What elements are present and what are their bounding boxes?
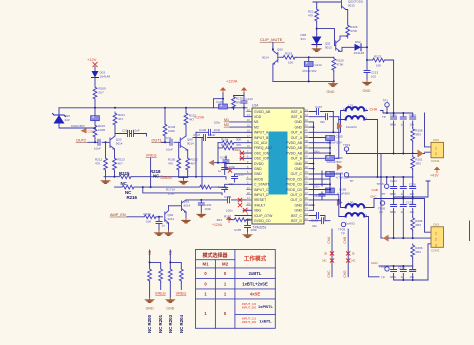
rail C CHC	[374, 198, 413, 200]
capacitor C153	[232, 177, 238, 179]
OUT_B wire to L21 row2	[310, 120, 346, 159]
capacitor C149	[223, 160, 229, 162]
svg-text:3R3: 3R3	[415, 250, 421, 254]
svg-text:/FAULT: /FAULT	[254, 203, 265, 207]
wire flag1 to C140	[214, 93, 224, 108]
wire OUT_D second	[310, 199, 339, 201]
svg-text:9014: 9014	[187, 142, 194, 146]
resistor R211 4K7	[113, 112, 117, 126]
svg-text:PVDD_CD: PVDD_CD	[286, 177, 303, 181]
speaker-arrow marker left CN3	[383, 235, 389, 242]
transistor Q51 9013	[336, 34, 348, 51]
svg-text:GND: GND	[254, 172, 262, 176]
test point TP1	[385, 103, 389, 107]
capacitor C168 BST_B	[310, 116, 339, 118]
svg-text:33n: 33n	[320, 120, 325, 124]
zobel caps row C	[394, 199, 413, 239]
svg-text:D52: D52	[355, 40, 361, 44]
mode-select table frame	[196, 250, 276, 329]
svg-text:CN2: CN2	[433, 138, 439, 142]
svg-text:C143: C143	[246, 97, 254, 101]
wire AMP_EN row	[127, 216, 163, 218]
svg-text:C153: C153	[237, 173, 245, 177]
svg-text:CON3: CON3	[431, 249, 440, 253]
svg-text:9015: 9015	[348, 4, 355, 8]
svg-text:C209: C209	[88, 130, 95, 134]
svg-text:1: 1	[435, 146, 437, 150]
resistor R220 470K	[332, 57, 336, 71]
svg-text:TP: TP	[350, 179, 354, 183]
svg-text:INPUT_D/0: INPUT_D/0	[242, 306, 257, 310]
resistor R223 10K	[367, 59, 372, 61]
BST_C cap	[310, 216, 326, 222]
svg-text:1xPBTL: 1xPBTL	[258, 304, 273, 309]
wire R200 to gnd	[149, 282, 151, 298]
svg-text:1u: 1u	[401, 192, 405, 196]
VBG wire	[243, 209, 252, 211]
right vertical rail	[366, 0, 368, 71]
top rail wire	[313, 1, 342, 3]
resistor R201	[159, 268, 163, 282]
svg-text:GVDD_AB: GVDD_AB	[254, 110, 271, 114]
svg-text:2200uF/50V: 2200uF/50V	[327, 141, 342, 145]
svg-text:VDD: VDD	[254, 115, 262, 119]
svg-text:10n: 10n	[410, 275, 415, 279]
resistor R266 3R3	[411, 244, 415, 258]
svg-text:Q50: Q50	[277, 48, 283, 52]
resistor R155 FREQ_ADJ	[218, 147, 252, 149]
svg-text:2: 2	[435, 237, 437, 241]
vertical rail b	[338, 117, 340, 159]
wire Q60 collector to bus via R151	[185, 108, 187, 112]
svg-text:TP19: TP19	[343, 143, 351, 147]
svg-text:C167: C167	[315, 105, 323, 109]
svg-text:OUT_A: OUT_A	[291, 131, 303, 135]
svg-text:1u: 1u	[218, 185, 222, 189]
ground under R212	[105, 177, 107, 179]
resistor R208 3R3	[411, 128, 415, 142]
rail B CHB	[378, 176, 413, 178]
speaker-arrow marker b	[337, 164, 343, 171]
wire row R216	[115, 187, 227, 189]
svg-text:C204: C204	[390, 179, 397, 183]
wire R223 to cap column	[386, 60, 394, 113]
svg-text:R223: R223	[374, 54, 382, 58]
svg-text:NC R201: NC R201	[158, 314, 163, 333]
resistor R215 (NC)	[118, 175, 132, 179]
svg-text:120K: 120K	[168, 192, 175, 196]
capacitor C155 100n	[247, 220, 249, 233]
svg-text:CHC: CHC	[327, 270, 331, 278]
resistor R203	[168, 268, 172, 282]
wire R204 to VREG	[180, 282, 182, 290]
resistor R154 OC_ADJ	[218, 142, 252, 144]
svg-text:FREQ_ADJ: FREQ_ADJ	[254, 146, 272, 150]
transistor Q50 9014	[273, 51, 282, 65]
svg-text:4xSE: 4xSE	[250, 292, 260, 297]
svg-text:M1: M1	[224, 118, 229, 122]
test point TP30	[385, 267, 389, 271]
svg-text:47K: 47K	[168, 162, 173, 166]
svg-text:TP1: TP1	[383, 99, 389, 103]
resistor R157 3R3	[229, 219, 252, 221]
svg-text:CHB: CHB	[372, 188, 378, 192]
svg-text:R199: R199	[144, 212, 152, 216]
svg-text:1n: 1n	[162, 224, 166, 228]
svg-text:1N4148: 1N4148	[100, 75, 111, 79]
svg-text:PVDD_AB: PVDD_AB	[286, 146, 303, 150]
zener DZ8 9V1	[316, 34, 318, 36]
svg-text:1: 1	[435, 231, 437, 235]
svg-text:TP: TP	[382, 192, 386, 196]
wire jumper CHA-CHC	[331, 229, 333, 277]
svg-text:3: 3	[435, 243, 437, 247]
wire Q20 emitter down	[114, 149, 116, 157]
test point TP15	[385, 184, 389, 188]
svg-text:47K: 47K	[308, 14, 313, 18]
resistor R265 3R3	[411, 217, 415, 231]
transistor Q61 9014	[182, 200, 187, 212]
svg-text:OC_ADJ: OC_ADJ	[254, 141, 268, 145]
svg-text:VREG: VREG	[176, 291, 187, 295]
wire R209 to bus	[94, 100, 96, 108]
svg-text:1xBTL+2xSE: 1xBTL+2xSE	[242, 281, 268, 286]
svg-text:VREG: VREG	[155, 291, 166, 295]
svg-text:C155: C155	[234, 228, 242, 232]
svg-text:2xBTL: 2xBTL	[249, 271, 262, 276]
ground under C154	[154, 231, 163, 237]
svg-text:/CLIP_OTW: /CLIP_OTW	[254, 214, 273, 218]
svg-text:GND: GND	[146, 307, 154, 311]
svg-text:100R: 100R	[98, 128, 106, 132]
wire OUT2 row	[88, 141, 110, 143]
svg-text:BST_A: BST_A	[291, 110, 302, 114]
resistor R150 47K	[178, 142, 180, 157]
svg-text:1u: 1u	[401, 123, 405, 127]
svg-text:M2: M2	[222, 262, 229, 267]
resistor R213 4K7	[113, 157, 117, 171]
svg-text:OSC_IOM: OSC_IOM	[254, 151, 270, 155]
svg-text:100n: 100n	[314, 150, 320, 154]
vertical rail a	[332, 112, 334, 133]
svg-text:10uF: 10uF	[94, 147, 101, 151]
svg-text:C147: C147	[193, 133, 201, 137]
svg-text:C212: C212	[315, 63, 323, 67]
capacitor C154	[158, 217, 160, 231]
svg-text:INPUT_D/0: INPUT_D/0	[242, 320, 257, 324]
transistor Q62 9014	[165, 206, 169, 223]
svg-text:R215: R215	[119, 171, 130, 176]
right edge stub	[469, 221, 471, 241]
svg-text:TPA3251: TPA3251	[253, 226, 267, 230]
flag 1	[220, 87, 226, 93]
right GND rail	[310, 122, 314, 210]
net CHA after L21	[364, 111, 412, 114]
svg-text:30K: 30K	[236, 138, 241, 142]
svg-text:BST_D: BST_D	[291, 219, 302, 223]
flag 2	[241, 87, 247, 93]
wire Q61 emitter to gnd	[185, 212, 187, 218]
ground GND under bus	[328, 81, 337, 87]
CLIP_OTW wire	[235, 215, 252, 217]
transistor Q20 9014	[110, 136, 115, 149]
svg-text:DVDD: DVDD	[254, 162, 264, 166]
electrolytic C209 100uF/50V	[94, 108, 96, 116]
svg-text:1u: 1u	[401, 210, 405, 214]
svg-text:OUT_A: OUT_A	[291, 136, 303, 140]
resistor R209 2K7	[93, 86, 97, 100]
svg-text:680n: 680n	[390, 192, 397, 196]
wire Q51 to D52	[340, 47, 354, 51]
wire +12V to D03	[94, 67, 96, 72]
small caps 100n column	[321, 192, 323, 199]
diode D03 1N4148	[92, 71, 99, 78]
svg-text:100n: 100n	[214, 121, 221, 125]
svg-text:1N4148: 1N4148	[354, 51, 365, 55]
svg-text:GND: GND	[294, 162, 302, 166]
svg-text:CHC: CHC	[370, 195, 377, 199]
svg-text:GND: GND	[166, 307, 174, 311]
svg-text:10n: 10n	[410, 123, 415, 127]
electrolytic C140	[219, 104, 228, 109]
svg-text:BST_B: BST_B	[291, 115, 302, 119]
svg-text:R216: R216	[127, 195, 138, 200]
svg-text:R157: R157	[224, 215, 232, 219]
svg-text:M1: M1	[254, 120, 259, 124]
resistor R216 (NC)	[121, 185, 135, 189]
zobel caps row D	[394, 266, 413, 280]
resistor R210	[93, 124, 97, 138]
IC pin names right	[286, 110, 303, 223]
svg-text:10n: 10n	[410, 210, 415, 214]
svg-text:47K: 47K	[95, 162, 100, 166]
speaker-arrow into CN2	[418, 150, 424, 158]
wire jumper CHB-CHD	[347, 229, 349, 277]
svg-text:3R3: 3R3	[415, 133, 421, 137]
power +41V	[434, 167, 440, 173]
svg-text:1u: 1u	[401, 275, 405, 279]
svg-text:9013: 9013	[325, 46, 332, 50]
resistor R221 47K	[316, 2, 318, 8]
svg-text:10uHX2: 10uHX2	[346, 125, 357, 129]
svg-text:+12VA: +12VA	[194, 116, 205, 120]
wire DZ8 node to Q51 base	[317, 29, 336, 46]
OUT_D wire to L20 row2	[310, 195, 346, 217]
electrolytic C212 470uF/16V	[308, 57, 310, 61]
svg-text:TP30: TP30	[379, 265, 387, 269]
svg-text:U34: U34	[252, 104, 258, 108]
electrolytic C165 2200uF/50V	[326, 136, 335, 141]
svg-text:3R3: 3R3	[415, 223, 421, 227]
svg-text:10n: 10n	[410, 192, 415, 196]
svg-text:GND: GND	[294, 209, 302, 213]
capacitor C147 input B	[193, 137, 252, 139]
L20 row1 out to CHC rail	[364, 199, 374, 208]
zener D26 24V branch	[59, 108, 95, 128]
svg-text:3R3: 3R3	[415, 162, 421, 166]
bottom rail B to +41V	[394, 181, 430, 197]
svg-text:CHA: CHA	[327, 236, 331, 244]
transistor Q52 9015	[342, 0, 346, 10]
svg-text:INPUT_A: INPUT_A	[254, 131, 269, 135]
svg-text:CHD: CHD	[371, 261, 378, 265]
svg-text:1u: 1u	[218, 169, 222, 173]
svg-text:CLIP_MUTE: CLIP_MUTE	[260, 37, 283, 42]
svg-text:C149: C149	[220, 156, 228, 160]
svg-text:GND: GND	[294, 203, 302, 207]
svg-text:工作模式: 工作模式	[244, 254, 267, 262]
svg-text:9014: 9014	[116, 142, 123, 146]
wire M1 drop	[150, 250, 161, 268]
DVDD/GND/AVDD wires	[225, 164, 252, 183]
svg-text:CHB: CHB	[343, 237, 347, 244]
svg-text:4K7: 4K7	[118, 117, 124, 121]
svg-text:2K7: 2K7	[99, 91, 105, 95]
svg-text:GND: GND	[294, 125, 302, 129]
resistor R161 3R3	[411, 156, 415, 170]
svg-text:AMP_EN: AMP_EN	[110, 213, 126, 217]
main top bus wire	[59, 107, 247, 109]
wire CLIP_MUTE drop	[272, 43, 274, 51]
svg-text:C173: C173	[409, 269, 416, 273]
svg-text:100uF/50V: 100uF/50V	[71, 124, 85, 128]
svg-text:10uF: 10uF	[209, 133, 216, 137]
input drop wires	[195, 132, 197, 176]
wire R201 to VREG	[160, 282, 162, 290]
svg-text:2: 2	[435, 152, 437, 156]
svg-text:100n: 100n	[205, 207, 212, 211]
capacitor C213 102	[364, 71, 370, 73]
OUT_C wires to L20	[310, 174, 346, 208]
svg-text:GND: GND	[363, 89, 371, 93]
svg-text:GND: GND	[327, 90, 335, 94]
resistor R149 100K	[164, 108, 166, 123]
test point TP20	[344, 173, 348, 177]
svg-text:C172: C172	[406, 201, 413, 205]
svg-text:GND: GND	[294, 120, 302, 124]
svg-text:470K: 470K	[337, 63, 344, 67]
svg-text:C203: C203	[409, 113, 416, 117]
svg-text:CON2: CON2	[431, 159, 440, 163]
test point TP19	[344, 147, 348, 151]
svg-text:OUT1: OUT1	[152, 139, 162, 143]
speaker-arrow marker left	[209, 160, 215, 166]
svg-text:GND: GND	[294, 167, 302, 171]
capacitor C143	[244, 96, 252, 117]
svg-text:10uF: 10uF	[214, 128, 221, 132]
svg-text:CHA: CHA	[370, 107, 378, 111]
svg-text:M1: M1	[202, 262, 209, 267]
svg-text:PVDD_AB: PVDD_AB	[286, 141, 303, 145]
wire row R170	[143, 187, 222, 195]
svg-text:100K: 100K	[168, 129, 175, 133]
ground under C213	[362, 80, 371, 86]
svg-text:+12VA: +12VA	[212, 223, 223, 227]
svg-text:+12V: +12V	[87, 57, 97, 62]
transistor Q60 9014	[180, 136, 187, 150]
test point TP29	[341, 222, 345, 226]
svg-text:OUT2: OUT2	[76, 139, 86, 143]
svg-text:NC: NC	[323, 259, 327, 263]
resistor R200	[148, 268, 152, 282]
svg-text:CN3: CN3	[433, 223, 439, 227]
svg-text:J5: J5	[352, 252, 355, 256]
capacitor C211 || 10uF	[115, 134, 147, 137]
svg-text:100n: 100n	[314, 185, 320, 189]
L20 row2 out drop	[364, 217, 379, 277]
svg-text:M2: M2	[254, 125, 259, 129]
svg-text:INPUT_C: INPUT_C	[254, 188, 269, 192]
svg-text:AVDD: AVDD	[254, 177, 264, 181]
svg-text:NC R200: NC R200	[147, 314, 152, 333]
wire OUT1 row	[162, 141, 181, 143]
svg-text:TP: TP	[341, 232, 345, 236]
svg-text:/RESET: /RESET	[254, 198, 266, 202]
svg-text:OUT_D: OUT_D	[291, 198, 303, 202]
resistor R171A 120K	[198, 185, 212, 189]
svg-text:NC R204: NC R204	[179, 314, 184, 333]
svg-text:TP: TP	[382, 115, 386, 119]
svg-text:R154: R154	[221, 138, 229, 142]
svg-text:NC: NC	[121, 181, 128, 186]
svg-text:9014: 9014	[262, 56, 269, 60]
test point TP26	[380, 201, 384, 205]
svg-text:680n: 680n	[390, 275, 397, 279]
svg-text:PVDD_AB: PVDD_AB	[286, 151, 303, 155]
zener D26	[54, 115, 65, 124]
capacitor C167 BST_A	[310, 111, 334, 113]
OUT_A wires to L21	[310, 111, 346, 138]
ground under R200	[145, 298, 154, 304]
capacitor C151 100n	[200, 200, 202, 212]
svg-text:C_START: C_START	[254, 183, 269, 187]
svg-text:NC: NC	[153, 174, 160, 179]
svg-text:C145: C145	[216, 100, 224, 104]
svg-text:C211: C211	[122, 128, 129, 132]
svg-text:INPUT_B: INPUT_B	[254, 136, 269, 140]
IC pin stubs	[247, 112, 310, 221]
svg-text:+41V: +41V	[430, 174, 439, 178]
svg-text:4K7: 4K7	[118, 162, 124, 166]
svg-text:INPUT_D: INPUT_D	[254, 193, 269, 197]
svg-text:24V: 24V	[65, 118, 70, 122]
wire R154/R155 common to C149	[214, 143, 226, 167]
bottom rail D	[394, 279, 428, 281]
electrolytic C158 4.7uF/50V	[310, 171, 328, 186]
PVDD_AB rail	[310, 136, 331, 161]
ground under R150/R152	[183, 177, 185, 179]
svg-text:680n: 680n	[390, 210, 397, 214]
svg-text:C146: C146	[199, 128, 207, 132]
wire R219 to R220	[296, 56, 334, 58]
IC pin names left	[254, 110, 273, 223]
svg-text:BST_C: BST_C	[291, 214, 302, 218]
wire Q61 collector /RESET row	[186, 199, 252, 201]
svg-text:OSC_IOP: OSC_IOP	[254, 157, 270, 161]
resistor R199	[143, 215, 157, 219]
wire D03 to R209	[94, 78, 96, 87]
svg-text:100n: 100n	[226, 209, 233, 213]
wire M2 drop	[170, 250, 181, 268]
svg-text:C160: C160	[398, 266, 405, 270]
svg-text:3R3: 3R3	[217, 218, 223, 222]
ground under DZ8	[316, 45, 318, 47]
svg-text:OUT_D: OUT_D	[291, 193, 303, 197]
capacitor C146 input A	[196, 131, 252, 133]
svg-text:OUT_C: OUT_C	[291, 172, 303, 176]
L21 row2 out drop	[364, 120, 377, 178]
svg-text:10K: 10K	[376, 63, 381, 67]
